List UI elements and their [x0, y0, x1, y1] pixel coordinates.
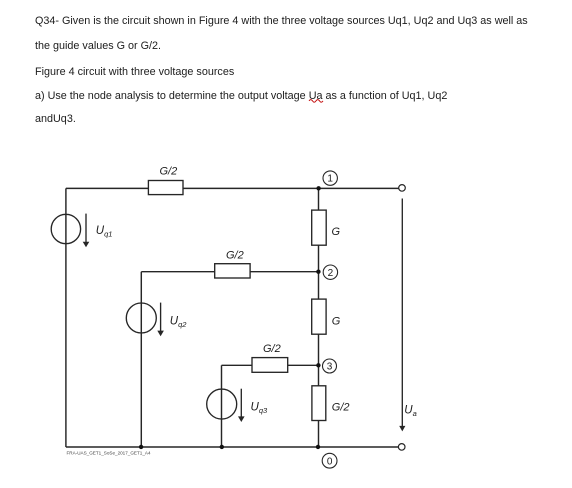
paragraph line 1 — [35, 16, 528, 27]
voltage source Uq2 circle — [126, 303, 156, 333]
spellcheck squiggle under Ua — [309, 100, 323, 103]
svg-text:Uq1: Uq1 — [96, 225, 113, 239]
resistor G/2 vertical node3-node0 — [312, 386, 326, 421]
resistor G/2 row3 (horizontal) — [252, 358, 288, 373]
wire bottom rail — [66, 446, 399, 448]
paragraph line 5 — [35, 114, 76, 125]
junction node 1 — [316, 186, 320, 190]
node 1 circled label — [323, 171, 337, 185]
junction node 2 — [316, 270, 320, 274]
svg-text:FRA-UAS_GET1_SoSe_2017_GET1_A4: FRA-UAS_GET1_SoSe_2017_GET1_A4 — [67, 451, 151, 456]
wire top-left from corner to R1 — [66, 187, 148, 189]
paragraph line 2 — [35, 41, 161, 52]
wire top-right from R1 through node 1 to terminal — [183, 187, 399, 189]
wire row3 right from R3 to node 3 — [288, 364, 319, 366]
svg-text:G: G — [332, 315, 341, 327]
junction node 3 — [316, 363, 320, 367]
voltage source Uq3 circle — [207, 389, 237, 419]
svg-text:Ua: Ua — [404, 405, 416, 419]
arrow Uq1 — [83, 214, 90, 248]
svg-text:G/2: G/2 — [226, 250, 244, 262]
arrow Ua output voltage — [399, 199, 405, 432]
svg-text:2: 2 — [328, 268, 334, 279]
paragraph line 3 — [35, 67, 234, 78]
wire bus R5 to node3 — [318, 334, 320, 365]
wire row2 left from Uq2 column to R2 — [141, 271, 214, 273]
wire bus node1 to R4 — [318, 188, 320, 210]
svg-text:0: 0 — [327, 456, 333, 467]
wire row2 right from R2 to node 2 — [250, 271, 318, 273]
terminal bottom right — [398, 444, 405, 451]
node 2 circled label — [323, 265, 337, 279]
svg-text:Uq3: Uq3 — [251, 401, 268, 415]
voltage source Uq1 circle — [51, 214, 80, 243]
wire left column through Uq1 — [65, 188, 67, 447]
svg-text:3: 3 — [327, 362, 333, 373]
junction Uq3 at bottom rail — [220, 445, 224, 449]
arrow Uq3 — [238, 389, 245, 422]
svg-text:Uq2: Uq2 — [170, 315, 187, 329]
svg-text:1: 1 — [327, 174, 333, 185]
wire Uq2 column — [140, 272, 142, 447]
wire row3 left from Uq3 column to R3 — [222, 364, 253, 366]
wire bus R4 to node2 — [318, 245, 320, 272]
resistor G/2 row2 (horizontal) — [215, 264, 250, 278]
svg-text:G/2: G/2 — [332, 402, 350, 414]
resistor G/2 top (horizontal) — [148, 181, 183, 195]
paragraph line 4 — [35, 91, 447, 102]
wire Uq3 column — [221, 365, 223, 447]
node 0 circled label — [322, 453, 337, 468]
svg-text:G/2: G/2 — [263, 343, 281, 355]
junction Uq2 at bottom rail — [139, 445, 143, 449]
arrow Uq2 — [157, 303, 164, 337]
terminal top right — [399, 185, 406, 192]
node 3 circled label — [323, 359, 337, 373]
svg-text:G/2: G/2 — [160, 166, 178, 178]
resistor G vertical node1-node2 — [312, 210, 327, 245]
junction bus at bottom rail — [316, 445, 320, 449]
svg-text:G: G — [332, 226, 341, 238]
resistor G vertical node2-node3 — [312, 299, 326, 334]
wire bus node2 to R5 — [318, 272, 320, 299]
wire bus node3 to R6 — [318, 365, 320, 386]
wire bus R6 to bottom rail — [318, 421, 320, 448]
